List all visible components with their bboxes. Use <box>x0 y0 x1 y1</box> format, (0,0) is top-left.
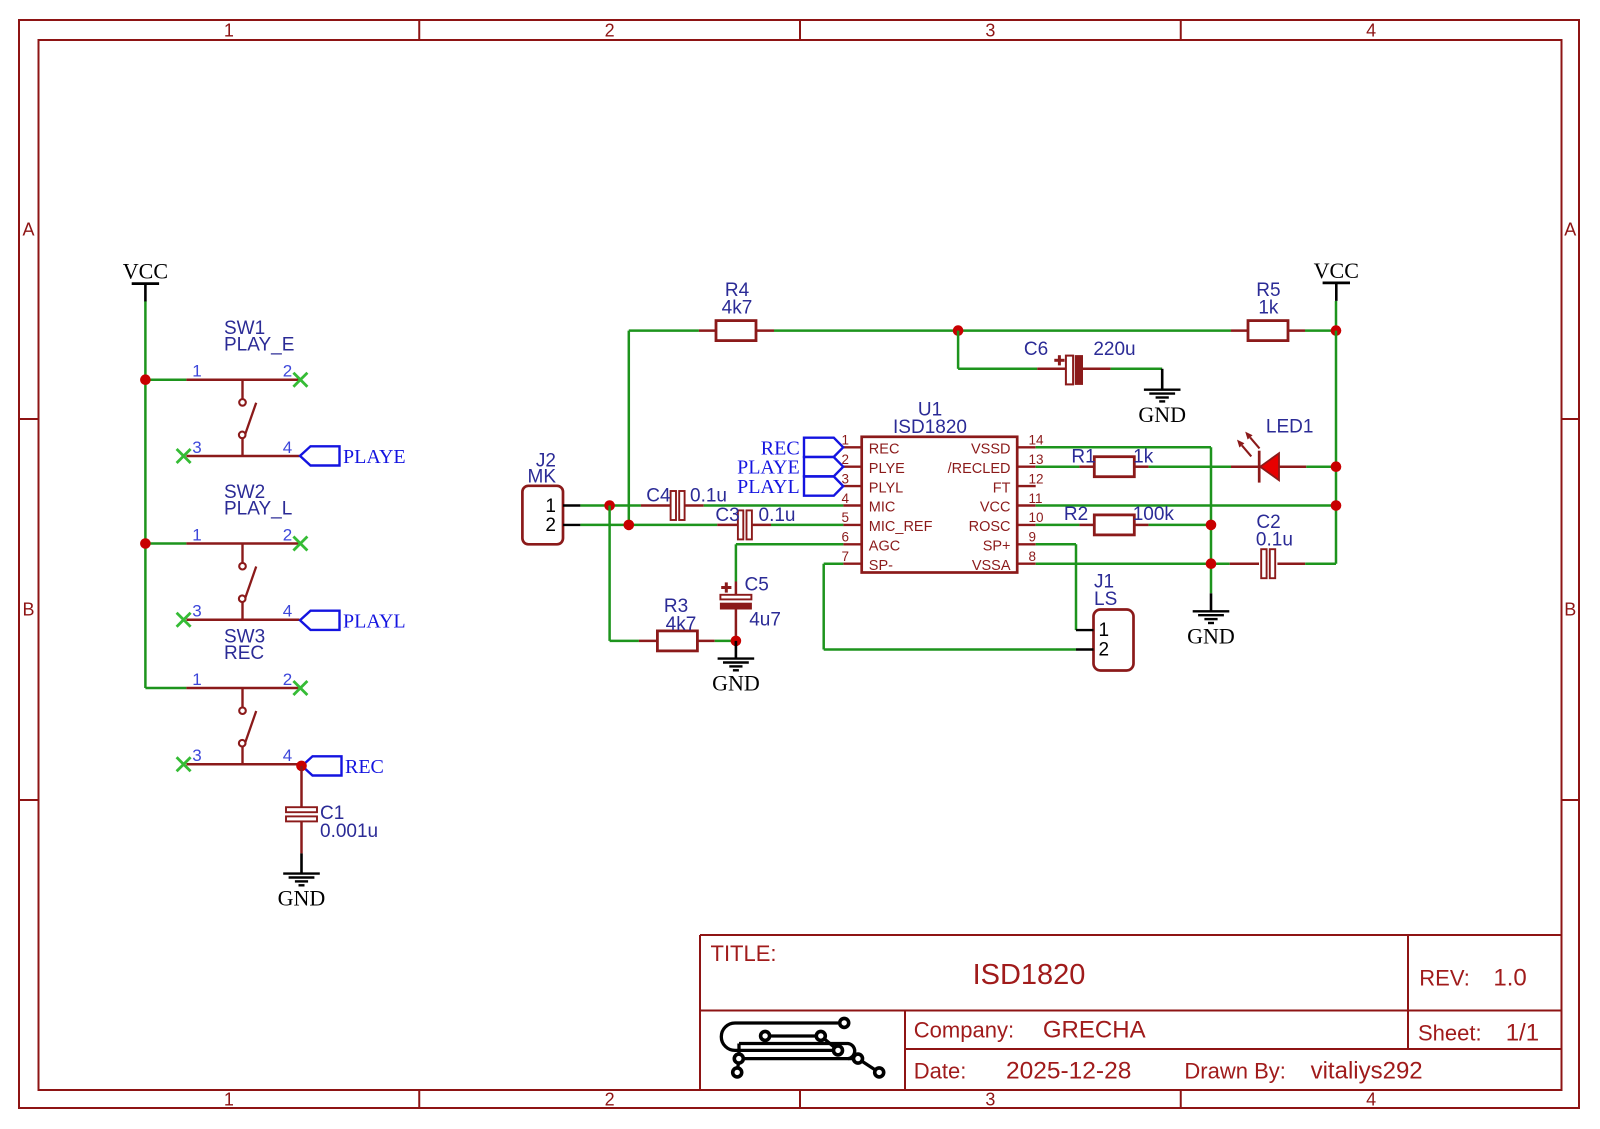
wire C6 branch <box>958 331 1037 369</box>
net flag PLAYE <box>300 446 406 468</box>
switch SW1 PLAY_E <box>145 318 307 463</box>
svg-text:2: 2 <box>283 362 292 381</box>
svg-text:1: 1 <box>192 362 201 381</box>
svg-text:3: 3 <box>985 21 995 41</box>
svg-text:1: 1 <box>192 670 201 689</box>
svg-text:VCC: VCC <box>1314 258 1359 283</box>
junction node VCC/R5 <box>1331 325 1342 336</box>
svg-text:12: 12 <box>1029 471 1044 486</box>
svg-text:2: 2 <box>545 515 556 536</box>
svg-text:3: 3 <box>985 1090 995 1110</box>
capacitor C1 0.001u <box>286 766 378 854</box>
svg-text:4: 4 <box>283 746 292 765</box>
svg-text:MIC_REF: MIC_REF <box>869 519 933 535</box>
resistor R4 4k7 <box>699 280 774 341</box>
svg-text:PLAYL: PLAYL <box>737 476 800 498</box>
svg-text:PLAYE: PLAYE <box>343 446 406 468</box>
ground below C5 <box>712 641 760 696</box>
svg-text:2025-12-28: 2025-12-28 <box>1006 1058 1131 1085</box>
net flag REC (switch) <box>302 756 384 778</box>
svg-text:VCC: VCC <box>123 259 168 284</box>
svg-text:Company:: Company: <box>914 1018 1014 1043</box>
svg-text:Date:: Date: <box>914 1059 967 1084</box>
wire right VCC rail vertical <box>1335 331 1338 564</box>
company label <box>914 1018 1014 1043</box>
wire C6 to ground <box>1111 368 1163 371</box>
svg-text:4k7: 4k7 <box>666 614 697 635</box>
wire R2 to ground rail <box>1149 524 1211 527</box>
date label <box>914 1059 967 1084</box>
svg-text:2: 2 <box>283 670 292 689</box>
wire R4 left horizontal <box>629 329 699 332</box>
junction node J2 pin1 <box>604 500 615 511</box>
net flag PLAYL <box>300 610 406 632</box>
capacitor C5 4u7 <box>720 574 781 641</box>
IC U1 ISD1820 <box>841 400 1044 574</box>
svg-text:REC: REC <box>869 442 900 458</box>
svg-text:REV:: REV: <box>1419 966 1470 991</box>
capacitor C6 220u <box>1024 339 1136 385</box>
svg-text:3: 3 <box>192 746 201 765</box>
company value GRECHA <box>1043 1017 1146 1044</box>
svg-text:5: 5 <box>841 510 849 525</box>
wire VSSA pin8 to C2 <box>1036 562 1230 565</box>
wire SP+ pin9 to J1 pin1 <box>1036 544 1076 630</box>
capacitor C4 0.1u <box>641 486 727 520</box>
svg-text:100k: 100k <box>1133 504 1175 525</box>
svg-text:AGC: AGC <box>869 539 900 555</box>
svg-text:SP-: SP- <box>869 558 893 574</box>
wire LED to VCC rail <box>1306 465 1336 468</box>
svg-text:C3: C3 <box>715 505 739 526</box>
resistor R2 100k <box>1064 504 1175 535</box>
svg-text:PLYL: PLYL <box>869 480 903 496</box>
svg-text:14: 14 <box>1029 433 1045 448</box>
svg-text:A: A <box>1564 220 1576 240</box>
wire J2 pin1 to C4 <box>580 504 641 507</box>
svg-text:4: 4 <box>1366 21 1376 41</box>
ground below C1 <box>278 853 326 910</box>
wire VCC pin11 <box>1036 504 1336 507</box>
svg-text:GND: GND <box>278 886 326 911</box>
svg-text:C5: C5 <box>745 574 769 595</box>
svg-text:MK: MK <box>528 467 557 488</box>
svg-text:1k: 1k <box>1258 298 1279 319</box>
title label TITLE: <box>711 941 777 966</box>
svg-text:REC: REC <box>224 643 264 664</box>
connector J2 MK <box>522 450 580 544</box>
svg-text:C4: C4 <box>646 486 671 507</box>
svg-text:PLYE: PLYE <box>869 461 905 477</box>
svg-text:4k7: 4k7 <box>722 298 753 319</box>
junction node SW1 pin1 <box>140 374 151 385</box>
wire C3 to MIC_REF pin5 <box>771 524 843 527</box>
date value 2025-12-28 <box>1006 1058 1131 1085</box>
svg-text:LS: LS <box>1094 589 1117 610</box>
capacitor C3 0.1u <box>715 505 795 540</box>
svg-text:6: 6 <box>841 530 849 545</box>
svg-text:13: 13 <box>1029 452 1044 467</box>
svg-text:1: 1 <box>224 21 234 41</box>
rev value 1.0 <box>1493 965 1526 992</box>
wire R5 to VCC rail <box>1305 329 1336 332</box>
svg-text:4: 4 <box>283 438 292 457</box>
junction node VSSA/rail <box>1206 558 1217 569</box>
resistor R3 4k7 <box>639 596 715 651</box>
svg-text:3: 3 <box>192 602 201 621</box>
wire VCC stem <box>1335 301 1338 331</box>
svg-text:2: 2 <box>605 1090 615 1110</box>
resistor R5 1k <box>1231 280 1305 341</box>
svg-text:0.1u: 0.1u <box>1256 530 1293 551</box>
wire C2 to VCC rail <box>1305 562 1336 565</box>
junction node R3/C5 <box>731 636 742 647</box>
capacitor C2 0.1u <box>1230 512 1306 578</box>
svg-text:GND: GND <box>712 671 760 696</box>
svg-text:1: 1 <box>1099 620 1110 641</box>
svg-text:2: 2 <box>283 525 292 544</box>
svg-text:ROSC: ROSC <box>969 519 1011 535</box>
net flag PLAYE (IC pin2) <box>737 457 843 479</box>
wire C4 to MIC pin4 <box>704 504 844 507</box>
svg-text:1/1: 1/1 <box>1506 1020 1539 1047</box>
svg-text:ISD1820: ISD1820 <box>893 417 967 438</box>
svg-text:1: 1 <box>224 1090 234 1110</box>
svg-text:0.001u: 0.001u <box>320 821 378 842</box>
svg-text:MIC: MIC <box>869 500 896 516</box>
svg-text:LED1: LED1 <box>1266 416 1314 437</box>
svg-text:ISD1820: ISD1820 <box>973 959 1086 991</box>
title value ISD1820 <box>973 959 1086 991</box>
resistor R1 1k <box>1071 447 1153 477</box>
wire ROSC pin10 to R2 <box>1036 524 1080 527</box>
svg-text:8: 8 <box>1029 549 1037 564</box>
drawn-by label <box>1184 1059 1285 1084</box>
drawn-by value vitaliys292 <box>1311 1058 1423 1085</box>
svg-text:0.1u: 0.1u <box>690 486 727 507</box>
power flag VCC (left) <box>123 259 168 302</box>
ground below rail <box>1187 593 1235 648</box>
svg-text:4u7: 4u7 <box>749 610 781 631</box>
svg-text:VCC: VCC <box>980 500 1011 516</box>
svg-text:B: B <box>22 600 34 620</box>
svg-text:Sheet:: Sheet: <box>1418 1021 1482 1046</box>
junction node SW2 pin1 <box>140 538 151 549</box>
svg-text:A: A <box>22 220 34 240</box>
svg-text:PLAY_E: PLAY_E <box>224 335 294 356</box>
sheet value 1/1 <box>1506 1020 1539 1047</box>
wire R4 to R5 <box>774 329 1231 332</box>
svg-text:0.1u: 0.1u <box>759 505 796 526</box>
svg-text:R1: R1 <box>1071 447 1095 468</box>
rev label <box>1419 966 1470 991</box>
junction node SW3 pin4 <box>296 761 307 772</box>
sheet label <box>1418 1021 1482 1046</box>
svg-text:PLAYL: PLAYL <box>343 610 406 632</box>
wire AGC pin6 <box>736 544 843 581</box>
wire SP- pin7 to J1 pin2 <box>824 564 1076 650</box>
svg-text:1: 1 <box>545 496 556 517</box>
svg-text:4: 4 <box>283 602 292 621</box>
ground below C6 <box>1138 369 1186 427</box>
svg-text:GND: GND <box>1187 623 1235 648</box>
svg-text:REC: REC <box>345 756 384 778</box>
connector J1 LS <box>1076 572 1134 671</box>
wire R1 to LED <box>1149 465 1231 468</box>
wire RECLED pin13 to R1 <box>1036 465 1080 468</box>
svg-text:2: 2 <box>605 21 615 41</box>
svg-text:1: 1 <box>192 525 201 544</box>
svg-text:4: 4 <box>1366 1090 1376 1110</box>
LED LED1 <box>1231 416 1313 482</box>
svg-text:2: 2 <box>1099 639 1110 660</box>
switch SW2 PLAY_L <box>145 482 307 627</box>
net flag REC (IC pin1) <box>761 437 843 459</box>
wire J2 pin1 down to R3 <box>610 506 639 641</box>
junction node R2/rail <box>1206 520 1217 531</box>
svg-text:B: B <box>1564 600 1576 620</box>
svg-text:7: 7 <box>841 549 849 564</box>
svg-text:R2: R2 <box>1064 504 1088 525</box>
svg-text:VSSD: VSSD <box>971 442 1011 458</box>
junction node J2 pin2 / R4 <box>624 520 635 531</box>
svg-text:FT: FT <box>993 480 1011 496</box>
svg-text:10: 10 <box>1029 510 1044 525</box>
svg-text:220u: 220u <box>1093 339 1135 360</box>
company logo <box>721 1018 883 1077</box>
svg-text:C6: C6 <box>1024 339 1048 360</box>
svg-text:SP+: SP+ <box>983 539 1011 555</box>
junction node VCC pin11/rail <box>1331 500 1342 511</box>
wire VSSD pin14 to ground rail <box>1036 447 1211 593</box>
svg-text:11: 11 <box>1029 491 1043 506</box>
switch SW3 REC <box>145 626 307 771</box>
svg-text:GRECHA: GRECHA <box>1043 1017 1146 1044</box>
svg-text:1k: 1k <box>1133 447 1154 468</box>
junction node top rail / C6 <box>953 325 964 336</box>
svg-text:1.0: 1.0 <box>1493 965 1526 992</box>
wire J2 pin2 to C3 <box>580 524 717 527</box>
wire R3 to C5 node <box>715 640 736 643</box>
power flag VCC (right) <box>1314 258 1359 301</box>
svg-text:VSSA: VSSA <box>972 558 1011 574</box>
svg-text:GND: GND <box>1138 402 1186 427</box>
net flag PLAYL (IC pin3) <box>737 476 843 498</box>
wire R4 left vertical <box>628 331 631 525</box>
wire VCC rail vertical <box>144 301 147 688</box>
junction node LED/VCC rail <box>1331 461 1342 472</box>
svg-text:/RECLED: /RECLED <box>948 461 1011 477</box>
svg-text:vitaliys292: vitaliys292 <box>1311 1058 1423 1085</box>
svg-text:3: 3 <box>192 438 201 457</box>
title block grid <box>700 935 1562 1090</box>
svg-text:Drawn By:: Drawn By: <box>1184 1059 1285 1084</box>
svg-text:TITLE:: TITLE: <box>711 941 777 966</box>
svg-text:PLAY_L: PLAY_L <box>224 499 292 520</box>
svg-text:4: 4 <box>841 491 849 506</box>
svg-text:9: 9 <box>1029 530 1037 545</box>
